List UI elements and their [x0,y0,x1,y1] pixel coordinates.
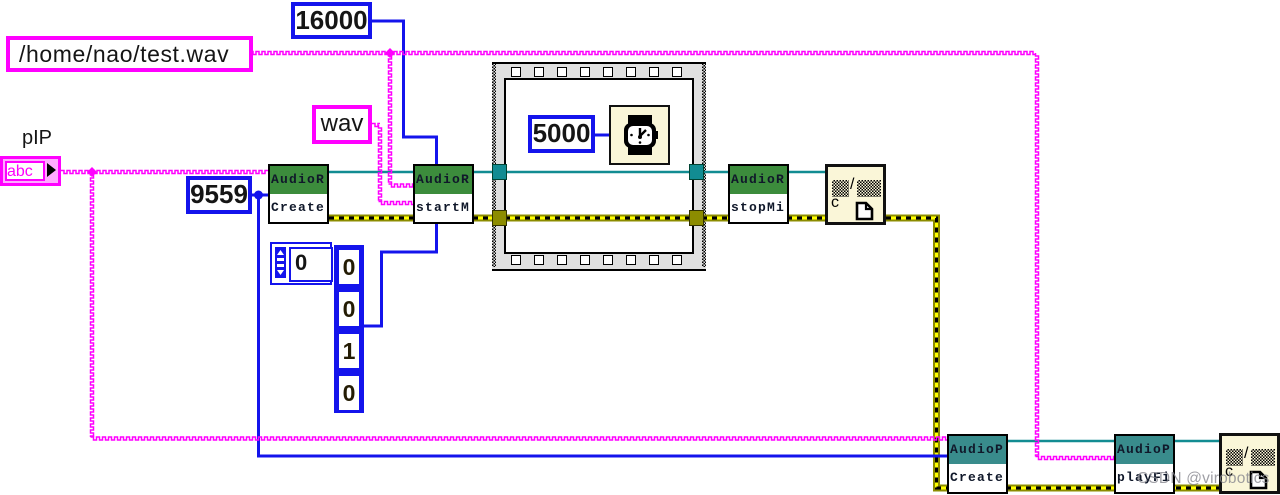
string constant /home/nao/test.wav [6,36,253,72]
wire refnum AudioPCreate-play [1008,440,1114,442]
tunnel refnum left [492,164,507,180]
watermark CSDN @virobotics [1137,470,1270,488]
sequence sprocket holes bottom [511,255,521,265]
numeric constant 9559 [186,176,252,214]
wire error close1-AudioP [886,218,1219,488]
wire refnum inside sequence [505,171,692,173]
wire error stopMi-close1 [787,215,826,222]
wire error tunnel-stopMi [702,215,728,222]
label pIP [22,127,52,150]
array constant [0,0,1,0] [334,245,364,413]
tunnel error left [492,210,507,226]
junction diamond on test.wav wire [385,48,395,58]
wire 5000 to Wait [595,134,610,137]
wire string wav to startM [372,124,413,205]
wire string test.wav branch to startM [389,53,414,187]
junction dot 9559 wire [254,191,263,200]
numeric constant 16000 [291,2,372,39]
wire refnum play-close2 [1175,440,1219,442]
wire 9559 to Create port [252,194,268,197]
wire refnum tunnel-stopMi [702,171,728,173]
flat sequence structure (film strip frame) [492,62,706,271]
junction diamond on pIP wire [87,167,97,177]
wire string pIP to Create [61,171,268,174]
wire error Create-startM [329,215,413,222]
wire refnum Create-startM [329,171,413,173]
wire 16000 to startM sample-rate [372,21,437,165]
subVI AudioPlayer Create [947,434,1008,494]
subVI AudioRecorder stopMicrophonesRecording [728,164,789,224]
VI icon close/clear 2 [1219,433,1280,494]
wire refnum startM-tunnel [473,171,495,173]
wire error inside sequence [505,215,692,222]
wire string test.wav main run [244,52,1114,460]
wire refnum stopMi-close1 [787,171,826,173]
tunnel error right [689,210,704,226]
VI icon close/clear 1 [825,164,886,225]
string control pIP (abc) [0,156,61,186]
sequence inner frame [504,78,694,254]
wire array to startM channels [364,223,437,326]
tunnel refnum right [689,164,704,180]
subVI AudioPlayer playFile [1114,434,1175,494]
wire string pIP branch to AudioPCreate [91,172,948,440]
subVI AudioRecorder startMicrophonesRecording [413,164,474,224]
string constant wav [312,105,372,144]
sequence sprocket holes top [511,67,521,77]
Wait (ms) function (watch icon) [609,105,670,165]
numeric constant 5000 [528,115,595,153]
array index display [270,242,332,285]
subVI AudioRecorder Create [268,164,329,224]
wire error startM-tunnel [473,215,495,222]
wire 9559 branch to AudioPCreate [259,195,948,456]
